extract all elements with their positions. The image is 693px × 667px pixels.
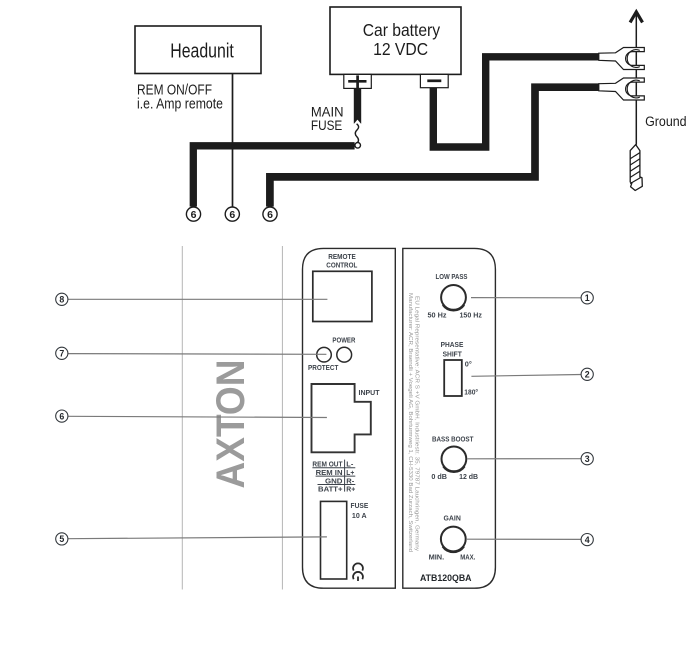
- svg-text:12 VDC: 12 VDC: [373, 39, 428, 59]
- pinout table: [312, 461, 355, 493]
- callout circle 3: [581, 453, 593, 465]
- wire REM (headunit to amp): [232, 74, 234, 207]
- LED power: [317, 347, 332, 362]
- svg-text:BASS BOOST: BASS BOOST: [432, 435, 474, 444]
- headunit box: [135, 26, 261, 74]
- svg-text:Manufacturer: ACR, Braendli +: Manufacturer: ACR, Braendli + Voegeli AG…: [407, 293, 413, 552]
- label REMOTE CONTROL: [326, 252, 357, 270]
- main fuse symbol: [354, 120, 362, 149]
- remote control port: [313, 271, 372, 321]
- leader line 7: [68, 353, 327, 356]
- svg-text:0 dB: 0 dB: [431, 472, 447, 481]
- leader line 2: [471, 375, 581, 377]
- svg-text:PROTECT: PROTECT: [308, 363, 339, 372]
- svg-text:AXTON: AXTON: [209, 360, 253, 489]
- node 6 circle c: [263, 207, 277, 221]
- node 6 circle b: [225, 207, 239, 221]
- phase shift switch: [444, 360, 462, 396]
- svg-text:50 Hz: 50 Hz: [428, 311, 447, 320]
- svg-text:FUSE: FUSE: [311, 118, 342, 133]
- label MAIN FUSE: [311, 105, 344, 133]
- leader line 1: [471, 297, 581, 299]
- faint guide line right: [281, 246, 283, 590]
- svg-text:BATT+: BATT+: [318, 486, 343, 493]
- labels MIN. / MAX.: [429, 552, 476, 561]
- svg-text:ATB120QBA: ATB120QBA: [420, 573, 472, 584]
- input connector: [312, 384, 371, 452]
- labels 0 dB / 12 dB: [431, 472, 478, 481]
- node 6 circle a: [186, 207, 200, 221]
- leader line 6: [68, 416, 327, 417]
- svg-text:0°: 0°: [465, 360, 472, 368]
- ground fork terminal 1: [599, 48, 645, 70]
- svg-text:EU Legal Representative: ACR S: EU Legal Representative: ACR S +V GmbH, …: [413, 296, 419, 551]
- svg-text:150 Hz: 150 Hz: [459, 311, 482, 320]
- CE mark: [353, 563, 363, 581]
- leader line 8: [68, 298, 328, 300]
- svg-text:R+: R+: [346, 486, 355, 493]
- callout circle 4: [581, 534, 593, 546]
- leader line 3: [468, 458, 582, 460]
- svg-text:MAX.: MAX.: [460, 552, 475, 561]
- LED protect: [337, 347, 352, 362]
- svg-text:INPUT: INPUT: [359, 388, 380, 397]
- callout circle 6: [56, 410, 68, 422]
- fuse holder: [321, 501, 347, 579]
- svg-text:8: 8: [59, 295, 64, 305]
- car battery box: [330, 7, 461, 74]
- svg-text:6: 6: [229, 209, 235, 221]
- callout circle 1: [581, 292, 593, 304]
- svg-text:i.e. Amp remote: i.e. Amp remote: [137, 96, 223, 112]
- faint guide line left: [181, 246, 183, 590]
- callout circle 2: [581, 368, 593, 380]
- label REM ON/OFF: [137, 82, 223, 112]
- svg-text:2: 2: [585, 370, 590, 380]
- left end panel outline: [303, 248, 396, 588]
- svg-text:180°: 180°: [464, 389, 478, 397]
- ground screw: [630, 145, 642, 191]
- callout circle 7: [56, 347, 68, 359]
- knob gain: [441, 527, 466, 553]
- battery minus terminal: [420, 74, 448, 87]
- knob bass boost: [442, 447, 467, 473]
- callout circle 8: [56, 293, 68, 305]
- svg-text:GAIN: GAIN: [444, 514, 461, 523]
- svg-text:SHIFT: SHIFT: [443, 350, 463, 359]
- svg-text:6: 6: [59, 411, 64, 421]
- svg-text:1: 1: [585, 293, 590, 303]
- wire GND (amp to ground fork): [270, 87, 599, 206]
- wire battery plus to fuse: [354, 88, 361, 123]
- callout circle 5: [56, 533, 68, 545]
- svg-text:FUSE: FUSE: [351, 501, 369, 510]
- svg-text:10 A: 10 A: [352, 511, 367, 520]
- ground arrow: [630, 12, 642, 145]
- svg-text:Ground: Ground: [645, 114, 687, 129]
- ground fork terminal 2: [599, 78, 645, 100]
- svg-text:LOW PASS: LOW PASS: [436, 272, 468, 281]
- battery plus terminal: [344, 74, 372, 89]
- svg-text:7: 7: [59, 349, 64, 359]
- labels 50 Hz / 150 Hz: [428, 311, 483, 320]
- svg-text:5: 5: [59, 534, 64, 544]
- label PHASE SHIFT: [441, 340, 464, 359]
- svg-text:Headunit: Headunit: [170, 41, 234, 63]
- wire battery minus to ground fork: [433, 57, 599, 147]
- wire BATT+ (fuse to amp): [193, 146, 354, 207]
- leader line 5: [68, 537, 327, 539]
- svg-text:MIN.: MIN.: [429, 552, 445, 561]
- svg-text:3: 3: [585, 454, 590, 464]
- leader line 4: [467, 538, 581, 540]
- svg-text:6: 6: [191, 209, 197, 221]
- svg-text:4: 4: [585, 535, 590, 545]
- svg-text:12 dB: 12 dB: [459, 472, 478, 481]
- svg-text:Car battery: Car battery: [363, 20, 441, 40]
- label FUSE 10 A: [351, 501, 369, 520]
- svg-text:6: 6: [267, 209, 273, 221]
- knob low pass: [441, 285, 466, 311]
- labels 0 / 180 degrees: [464, 360, 478, 396]
- svg-text:PHASE: PHASE: [441, 340, 464, 349]
- svg-text:POWER: POWER: [332, 336, 356, 345]
- right end panel outline: [403, 248, 496, 588]
- pinout table lines: [312, 460, 355, 492]
- svg-text:CONTROL: CONTROL: [326, 261, 357, 270]
